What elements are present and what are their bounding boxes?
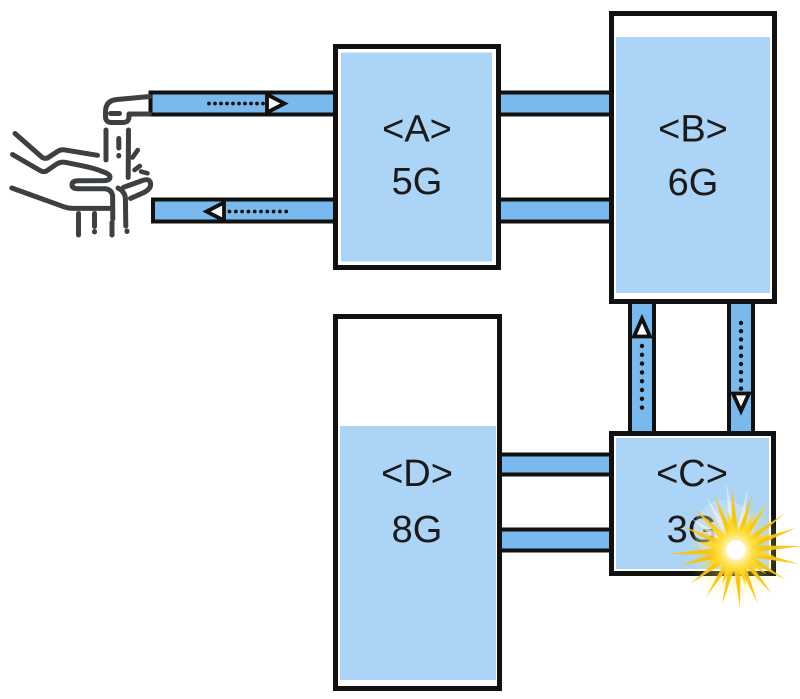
- hand washing icon: drips: [79, 214, 128, 236]
- hand washing icon: water stream from faucet: [106, 130, 129, 178]
- pipe: faucet to tank A (top, flow right): [151, 93, 421, 115]
- pipe: tank D to tank C (lower): [450, 530, 700, 551]
- hand washing icon: splash ticks: [133, 150, 148, 173]
- tank C box: [612, 434, 774, 574]
- tank D box: [336, 317, 500, 689]
- flow arrowhead down: B to C (right pipe): [733, 394, 749, 412]
- tank A label <A> 5G: [382, 109, 452, 204]
- pipe: tank A to tank B (top): [450, 93, 700, 115]
- flow dots: B to C (right pipe): [739, 321, 743, 391]
- flow arrowhead left: A to faucet: [207, 203, 225, 221]
- tank D label <D> 8G: [381, 453, 453, 551]
- hand washing icon: faucet: [106, 97, 150, 123]
- tank B box: [612, 14, 775, 302]
- pipe: tank A to faucet (bottom, flow left): [153, 200, 420, 222]
- pipe: tank B to tank C (left vertical, flow up): [630, 280, 654, 450]
- flow dots: A to faucet: [228, 210, 289, 214]
- pipe: tank A to tank B (bottom): [450, 200, 700, 222]
- pipe: tank D to tank C (upper): [450, 455, 700, 475]
- svg-text:<A>: <A>: [382, 109, 452, 151]
- flow arrowhead right: faucet to A: [267, 95, 285, 113]
- svg-text:<D>: <D>: [381, 453, 453, 495]
- pipe: tank B to tank C (right vertical, flow down): [729, 280, 753, 450]
- tank C label <C> 3G: [656, 453, 728, 551]
- hand washing icon: upper hand arm lines: [13, 134, 113, 220]
- flow dots: faucet to A: [207, 102, 265, 106]
- svg-text:6G: 6G: [668, 162, 719, 204]
- flow dots: C to B (left pipe): [640, 344, 644, 410]
- svg-text:<C>: <C>: [656, 453, 728, 495]
- hand washing icon: water running off hand: [118, 188, 126, 226]
- tank A box: [336, 47, 499, 268]
- hand washing icon: lower hand: [12, 180, 151, 209]
- svg-text:5G: 5G: [392, 161, 443, 203]
- tank B label <B> 6G: [658, 109, 728, 205]
- flow arrowhead up: C to B (left pipe): [634, 319, 650, 337]
- svg-text:8G: 8G: [392, 509, 443, 551]
- explosion/spark on tank C: [668, 482, 800, 608]
- svg-text:<B>: <B>: [658, 109, 728, 151]
